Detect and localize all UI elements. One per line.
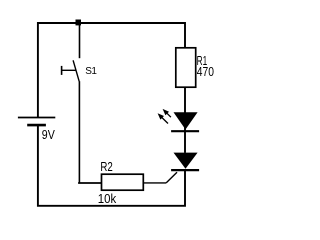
thyristor SCR triangle	[174, 153, 198, 169]
wire switch branch top stub	[79, 23, 81, 58]
svg-text:R2: R2	[100, 159, 112, 174]
svg-text:10k: 10k	[98, 191, 117, 206]
wire LED cathode to SCR anode	[184, 127, 186, 153]
wire gate diagonal to SCR	[166, 172, 177, 183]
node junction at top rail	[76, 20, 82, 26]
LED D1 triangle	[174, 112, 198, 129]
wire R1 bottom to LED anode	[184, 87, 186, 112]
svg-text:1: 1	[91, 66, 97, 77]
LED D1 cathode bar	[171, 130, 199, 132]
svg-text:9V: 9V	[42, 127, 55, 142]
wire R2 right stub	[143, 182, 166, 184]
resistor R1 body	[176, 48, 196, 87]
wire top rail from battery positive to right branch	[38, 23, 185, 117]
switch S1 plunger cap	[61, 66, 63, 75]
battery B1 negative plate	[27, 124, 46, 127]
resistor R2 body	[102, 174, 144, 190]
switch S1 lever	[73, 60, 79, 81]
switch S1 plunger	[62, 69, 76, 71]
wire R2 left stub	[78, 182, 101, 184]
battery B1 positive plate	[18, 117, 55, 119]
wire battery negative down, bottom rail, up to SCR cathode	[38, 126, 185, 206]
LED D1 emission arrow 2	[158, 113, 168, 123]
wire switch branch down to R2	[78, 81, 80, 183]
svg-text:470: 470	[197, 64, 214, 79]
LED D1 emission arrow 1	[163, 109, 171, 117]
thyristor SCR cathode bar	[171, 169, 199, 171]
